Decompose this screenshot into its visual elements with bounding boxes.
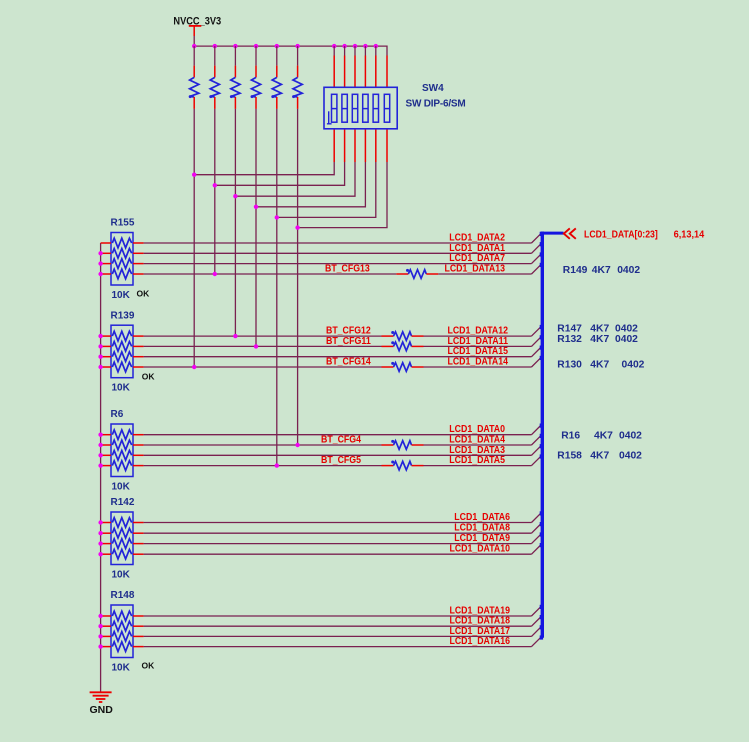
wire net LCD1_DATA2 (144, 234, 541, 243)
R139 pin row 1 left (101, 335, 111, 337)
svg-text:OK: OK (142, 371, 156, 381)
resistor pack R148 10K (111, 605, 133, 658)
junction node R155 row 4 / ground net (98, 272, 102, 276)
SW4 pin-1 marker (328, 111, 330, 124)
switch SW4 SW DIP-6/SM (324, 87, 397, 129)
wire net LCD1_DATA9 (144, 534, 541, 543)
R139 pin row 4 left (101, 366, 111, 368)
SW4 top pin 1 (333, 46, 335, 87)
junction node R155 row 2 / ground net (98, 251, 102, 255)
svg-text:4K7: 4K7 (592, 265, 611, 276)
svg-text:GND: GND (90, 704, 114, 716)
svg-text:R139: R139 (111, 310, 135, 321)
R148 pin row 1 left (101, 615, 111, 617)
pull-up resistor RP4 (column 4) (251, 46, 261, 109)
junction node column 5 / SW4 pin 5 (275, 215, 279, 219)
resistor R132 4K7 0402 (series) (382, 341, 424, 350)
wire net BT_CFG12 (144, 335, 382, 337)
wire column 5 vertical (276, 109, 278, 466)
R139 pin row 4 right (133, 366, 144, 368)
svg-text:0402: 0402 (615, 334, 638, 345)
svg-text:LCD1_DATA13: LCD1_DATA13 (445, 264, 506, 275)
R6 pin row 2 left (101, 444, 111, 446)
wire top distribution net (194, 46, 387, 55)
wire net LCD1_DATA11 (424, 337, 541, 346)
wire net LCD1_DATA4 (424, 436, 541, 445)
svg-text:OK: OK (142, 660, 156, 670)
svg-text:R130: R130 (557, 359, 582, 370)
svg-text:LCD1_DATA14: LCD1_DATA14 (448, 357, 509, 368)
R6 pin row 1 right (133, 434, 144, 436)
R6 pin row 4 left (101, 465, 111, 467)
svg-text:LCD1_DATA10: LCD1_DATA10 (450, 544, 511, 555)
svg-text:R16: R16 (561, 431, 580, 442)
R139 pin row 2 left (101, 345, 111, 347)
wire net LCD1_DATA13 (438, 265, 540, 274)
svg-text:LCD1_DATA8: LCD1_DATA8 (454, 523, 510, 534)
R142 pin row 2 left (101, 532, 111, 534)
svg-text:4K7: 4K7 (594, 431, 613, 442)
SW4 top pin 4 (364, 46, 366, 87)
label R132 4K7 0402 (557, 334, 638, 345)
svg-text:6,13,14: 6,13,14 (674, 230, 705, 241)
svg-text:10K: 10K (112, 663, 131, 674)
R142 pin row 4 left (101, 553, 111, 555)
R139 pin row 1 right (133, 335, 144, 337)
resistor pack R142 10K (111, 512, 133, 565)
svg-text:R148: R148 (111, 590, 135, 601)
wire net LCD1_DATA19 (144, 607, 541, 616)
label R130 4K7 0402 (557, 359, 644, 370)
svg-text:R158: R158 (557, 450, 582, 461)
svg-text:SW4: SW4 (422, 83, 444, 94)
R148 pin row 3 right (133, 635, 144, 637)
wire SW4 pin 3 to column 3 (235, 129, 355, 196)
resistor R158 4K7 0402 (series) (382, 461, 424, 470)
wire net LCD1_DATA14 (424, 358, 541, 367)
junction node R139 row 2 / ground net (98, 344, 102, 348)
svg-text:4K7: 4K7 (590, 334, 609, 345)
wire to ground (100, 691, 102, 693)
R148 pin row 4 left (101, 646, 111, 648)
SW4 top pin 5 (375, 46, 377, 87)
bus LCD1_DATA[0:23] vertical (541, 232, 544, 638)
svg-text:0402: 0402 (617, 265, 640, 276)
svg-text:BT_CFG5: BT_CFG5 (321, 455, 361, 466)
resistor pack R139 10K (111, 325, 133, 378)
R6 pin row 3 left (101, 454, 111, 456)
junction node column 6 / BT_CFG4 (295, 443, 299, 447)
R142 pin row 3 right (133, 543, 144, 545)
R139 pin row 3 right (133, 356, 144, 358)
R155 pin row 4 right (133, 273, 144, 275)
wire net LCD1_DATA8 (144, 524, 541, 533)
junction node column 6 / SW4 pin 6 (295, 225, 299, 229)
resistor R16 4K7 0402 (series) (382, 440, 424, 449)
wire left ground net vertical (100, 243, 102, 692)
junction node R148 row 2 / ground net (98, 624, 102, 628)
svg-text:4K7: 4K7 (590, 359, 609, 370)
pull-up resistor RP1 (column 1) (189, 46, 199, 109)
junction node column 4 / BT_CFG11 (254, 344, 258, 348)
svg-text:0402: 0402 (619, 431, 642, 442)
R139 pin row 2 right (133, 345, 144, 347)
label R16 4K7 0402 (561, 431, 642, 442)
svg-text:R6: R6 (111, 409, 124, 420)
wire SW4 pin 1 to column 1 (194, 129, 334, 175)
R142 pin row 1 left (101, 522, 111, 524)
R6 pin row 4 right (133, 465, 144, 467)
svg-text:LCD1_DATA5: LCD1_DATA5 (449, 455, 505, 466)
wire SW4 pin 6 to column 6 (298, 129, 387, 228)
wire net LCD1_DATA12 (424, 327, 541, 336)
junction node R148 row 4 / ground net (98, 644, 102, 648)
R148 pin row 4 right (133, 646, 144, 648)
junction node R148 row 3 / ground net (98, 634, 102, 638)
wire net LCD1_DATA1 (144, 244, 541, 253)
bus top stub (541, 232, 564, 235)
SW4 top pin 2 (344, 46, 346, 87)
wire SW4 pin 4 to column 4 (256, 129, 365, 207)
R142 pin row 4 right (133, 553, 144, 555)
wire net BT_CFG11 (144, 345, 382, 347)
pull-up resistor RP6 (column 6) (292, 46, 302, 109)
junction dots on top net (192, 44, 378, 48)
R155 pin row 3 left (101, 263, 111, 265)
pull-up resistor RP5 (column 5) (271, 46, 281, 109)
svg-text:BT_CFG11: BT_CFG11 (326, 336, 371, 347)
wire net LCD1_DATA10 (144, 545, 541, 554)
svg-text:R155: R155 (111, 218, 135, 229)
wire column 2 vertical (214, 109, 216, 274)
wire net LCD1_DATA0 (144, 426, 541, 435)
R148 pin row 1 right (133, 615, 144, 617)
resistor pack R155 10K (111, 233, 133, 286)
svg-text:R132: R132 (557, 334, 582, 345)
svg-text:LCD1_DATA7: LCD1_DATA7 (449, 253, 505, 264)
junction node column 1 / BT_CFG14 (192, 365, 196, 369)
R6 pin row 3 right (133, 454, 144, 456)
resistor R147 4K7 0402 (series) (382, 331, 424, 340)
resistor pack R6 10K (111, 424, 133, 477)
svg-text:BT_CFG14: BT_CFG14 (326, 357, 371, 368)
svg-text:LCD1_DATA6: LCD1_DATA6 (454, 512, 510, 523)
label R158 4K7 0402 (557, 450, 642, 461)
wire net LCD1_DATA16 (144, 637, 541, 646)
svg-text:4K7: 4K7 (590, 450, 609, 461)
resistor R149 4K7 0402 (series) (396, 269, 438, 278)
R155 pin row 2 left (101, 252, 111, 254)
junction node R142 row 3 / ground net (98, 541, 102, 545)
junction node R139 row 1 / ground net (98, 334, 102, 338)
power symbol NVCC_3V3 (173, 16, 221, 37)
junction node R139 row 3 / ground net (98, 355, 102, 359)
wire net LCD1_DATA15 (144, 348, 541, 357)
svg-text:4K7: 4K7 (590, 323, 609, 334)
svg-text:BT_CFG13: BT_CFG13 (325, 264, 370, 275)
R155 pin row 1 left (101, 242, 111, 244)
R148 pin row 3 left (101, 635, 111, 637)
R148 pin row 2 left (101, 625, 111, 627)
wire column 1 vertical (193, 109, 195, 367)
svg-text:R149: R149 (563, 265, 588, 276)
wire net LCD1_DATA18 (144, 617, 541, 626)
svg-text:10K: 10K (112, 482, 131, 493)
R142 pin row 1 right (133, 522, 144, 524)
svg-text:10K: 10K (112, 383, 131, 394)
junction node column 3 / BT_CFG12 (233, 334, 237, 338)
svg-text:10K: 10K (112, 290, 131, 301)
wire net LCD1_DATA6 (144, 513, 541, 522)
wire SW4 pin 2 to column 2 (215, 129, 345, 186)
svg-text:0402: 0402 (619, 450, 642, 461)
svg-text:0402: 0402 (615, 323, 638, 334)
wire power stem to bus (193, 36, 195, 46)
junction node R148 row 1 / ground net (98, 614, 102, 618)
svg-text:R142: R142 (111, 497, 135, 508)
SW4 top pin 3 (354, 46, 356, 87)
svg-text:OK: OK (137, 288, 151, 298)
R6 pin row 2 right (133, 444, 144, 446)
junction node column 4 / SW4 pin 4 (254, 205, 258, 209)
wire net LCD1_DATA17 (144, 627, 541, 636)
junction node R6 row 2 / ground net (98, 443, 102, 447)
junction node R6 row 1 / ground net (98, 433, 102, 437)
junction node R142 row 1 / ground net (98, 520, 102, 524)
wire net BT_CFG13 (144, 273, 397, 275)
svg-text:0402: 0402 (622, 359, 645, 370)
junction node column 5 / BT_CFG5 (275, 463, 279, 467)
svg-text:SW DIP-6/SM: SW DIP-6/SM (406, 99, 466, 110)
R155 pin row 2 right (133, 252, 144, 254)
junction node column 1 / SW4 pin 1 (192, 173, 196, 177)
wire column 6 vertical (297, 109, 299, 445)
R142 pin row 3 left (101, 543, 111, 545)
junction node R139 row 4 / ground net (98, 365, 102, 369)
label R149 4K7 0402 (563, 265, 641, 276)
R139 pin row 3 left (101, 356, 111, 358)
wire net BT_CFG5 (144, 465, 382, 467)
svg-text:LCD1_DATA16: LCD1_DATA16 (450, 636, 511, 647)
wire column 4 vertical (255, 109, 257, 347)
svg-text:LCD1_DATA[0:23]: LCD1_DATA[0:23] (584, 230, 658, 241)
ground GND (90, 692, 112, 702)
junction node column 2 / SW4 pin 2 (213, 183, 217, 187)
R155 pin row 3 right (133, 263, 144, 265)
R142 pin row 2 right (133, 532, 144, 534)
junction node R6 row 3 / ground net (98, 453, 102, 457)
wire column 3 vertical (234, 109, 236, 336)
label R147 4K7 0402 (557, 323, 638, 334)
R155 pin row 4 left (101, 273, 111, 275)
pull-up resistor RP3 (column 3) (230, 46, 240, 109)
wire net LCD1_DATA5 (424, 456, 541, 465)
R155 pin row 1 right (133, 242, 144, 244)
junction node column 2 / BT_CFG13 (213, 272, 217, 276)
wire net BT_CFG14 (144, 366, 382, 368)
junction node R142 row 4 / ground net (98, 552, 102, 556)
junction node column 3 / SW4 pin 3 (233, 194, 237, 198)
svg-text:BT_CFG4: BT_CFG4 (321, 435, 361, 446)
SW4 top pin 6 (386, 56, 388, 88)
svg-text:LCD1_DATA9: LCD1_DATA9 (454, 533, 510, 544)
wire net LCD1_DATA3 (144, 446, 541, 455)
junction node R6 row 4 / ground net (98, 463, 102, 467)
bus entry nubs (540, 232, 543, 640)
wire net BT_CFG4 (144, 444, 382, 446)
junction node R142 row 2 / ground net (98, 531, 102, 535)
pull-up resistor RP2 (column 2) (209, 46, 219, 109)
R148 pin row 2 right (133, 625, 144, 627)
svg-text:10K: 10K (112, 570, 131, 581)
bus off-page connector chevrons (564, 228, 576, 238)
svg-text:R147: R147 (557, 323, 582, 334)
resistor R130 4K7 0402 (series) (382, 362, 424, 371)
junction node R155 row 3 / ground net (98, 261, 102, 265)
wire net LCD1_DATA7 (144, 254, 541, 263)
R6 pin row 1 left (101, 434, 111, 436)
wire SW4 pin 5 to column 5 (277, 129, 376, 218)
